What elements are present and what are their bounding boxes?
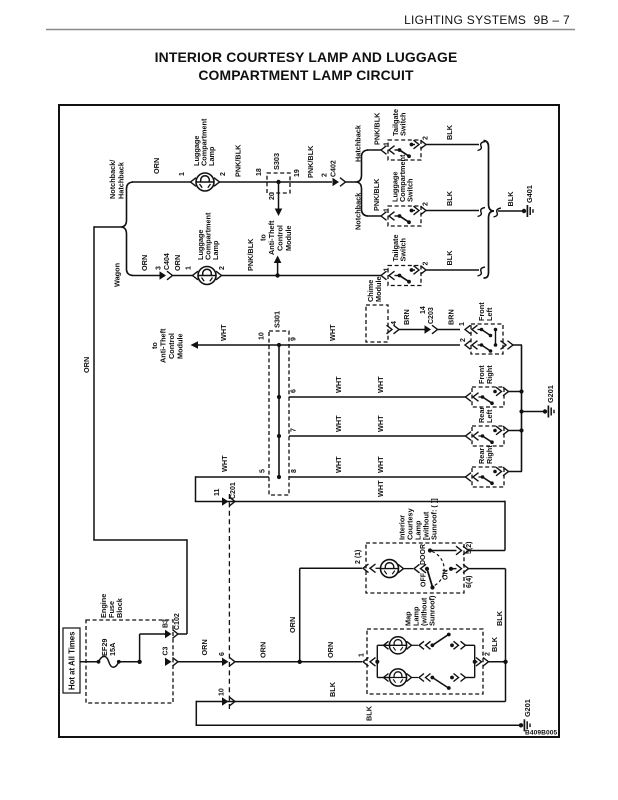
- svg-text:BRN: BRN: [447, 309, 456, 325]
- switch: Rear Left door switch: [472, 426, 504, 446]
- svg-text:Hatchback: Hatchback: [354, 124, 363, 162]
- svg-text:C3: C3: [163, 646, 170, 655]
- lamp module: Map Lamp box: [367, 629, 483, 694]
- svg-text:Right: Right: [485, 365, 494, 384]
- svg-text:Module: Module: [176, 333, 185, 359]
- svg-text:BLK: BLK: [506, 191, 515, 207]
- svg-text:18: 18: [256, 168, 263, 176]
- connector C201 harness dashed line: [228, 494, 230, 709]
- wire ORN C201 to map lamp pin 1: [235, 661, 362, 663]
- svg-text:Block: Block: [115, 597, 124, 618]
- wire DOOR contact to pin 5(2): [430, 550, 457, 552]
- wire tie to pin 2: [475, 661, 478, 663]
- wire BLK vertical x=505 down to bottom run: [505, 569, 507, 702]
- wire BRN C203 to front-left door switch pin 1: [438, 329, 461, 331]
- svg-text:G201: G201: [546, 385, 555, 403]
- wire map lamp pin2 to vertical: [489, 661, 506, 663]
- curl joint bus-to-G401 wire: [494, 208, 502, 217]
- wire PNK/BLK S303 to C402: [290, 181, 332, 183]
- fuse block: Engine Fuse Block box: [86, 620, 173, 703]
- svg-text:ORN: ORN: [140, 255, 149, 271]
- svg-text:11: 11: [214, 488, 221, 496]
- wire up-arrow to anti-theft control module (wagon row): [277, 261, 279, 276]
- svg-text:7: 7: [291, 428, 298, 432]
- wire WHT S301 pin6 to front-right door switch: [289, 396, 466, 398]
- switch: Tailgate Switch (wagon): [388, 266, 421, 286]
- svg-text:1: 1: [459, 322, 466, 326]
- fuse EF29 15A: [97, 660, 101, 664]
- svg-text:COMPARTMENT LAMP CIRCUIT: COMPARTMENT LAMP CIRCUIT: [198, 67, 414, 83]
- terminal map lamp pin 2: [476, 658, 482, 667]
- svg-text:Hot at All Times: Hot at All Times: [67, 631, 76, 690]
- svg-text:14: 14: [420, 306, 427, 314]
- S301 internal bus: [278, 345, 280, 477]
- svg-text:DOOR: DOOR: [420, 544, 427, 565]
- splice S301 box: [269, 331, 289, 495]
- svg-text:2: 2: [220, 172, 227, 176]
- svg-text:6(4): 6(4): [466, 576, 473, 588]
- svg-text:19: 19: [294, 169, 301, 177]
- label Hot at All Times box: [63, 628, 80, 693]
- terminal courtesy lamp pin 2(1): [363, 564, 369, 573]
- svg-text:WHT: WHT: [219, 324, 228, 341]
- svg-text:BRN: BRN: [402, 309, 411, 325]
- map lamp bulb+switch branch (top): [377, 644, 389, 646]
- svg-text:WHT: WHT: [376, 456, 385, 473]
- svg-text:1: 1: [186, 266, 193, 270]
- svg-text:15A: 15A: [108, 642, 117, 656]
- front left switch internals: [465, 325, 471, 334]
- switch: Tailgate Switch (hatchback): [388, 140, 421, 160]
- svg-text:Switch: Switch: [399, 112, 408, 136]
- svg-text:Lamp: Lamp: [211, 240, 220, 260]
- svg-text:ORN: ORN: [259, 642, 268, 658]
- wire front-right switch to bus: [509, 391, 523, 393]
- svg-text:WHT: WHT: [334, 456, 343, 473]
- svg-text:WHT: WHT: [376, 415, 385, 432]
- svg-text:G201: G201: [523, 699, 532, 717]
- curl joint notchback-to-bus: [478, 208, 486, 217]
- svg-text:C404: C404: [164, 253, 171, 270]
- svg-text:S303: S303: [272, 153, 281, 170]
- wire 5(2) to vertical x=505: [469, 550, 506, 552]
- svg-text:2: 2: [460, 338, 467, 342]
- wire ORN wagon row to C404: [132, 275, 160, 277]
- diagram border frame: [59, 105, 559, 737]
- wire WHT S301 pin7 to rear-left door switch: [289, 435, 466, 437]
- map lamp branch verticals: [376, 645, 378, 677]
- svg-text:2: 2: [423, 202, 430, 206]
- curl joint wagon-to-bus: [478, 267, 486, 276]
- wire ORN feed into left brace: [94, 226, 121, 228]
- switch: Front Right door switch: [472, 387, 504, 407]
- svg-text:BLK: BLK: [490, 636, 499, 652]
- lamp: interior courtesy bulb: [376, 567, 381, 569]
- wire map lamp input to split: [376, 661, 378, 663]
- connector C102 pin B3: [165, 630, 172, 638]
- svg-text:5: 5: [260, 469, 267, 473]
- svg-text:PNK/BLK: PNK/BLK: [234, 144, 243, 177]
- svg-text:BLK: BLK: [445, 250, 454, 266]
- svg-text:Switch: Switch: [406, 178, 415, 202]
- ground G201 (middle): [543, 409, 547, 413]
- svg-text:BLK: BLK: [328, 681, 337, 697]
- lamp: Luggage Compartment Lamp (notchback/hatchback): [196, 173, 214, 191]
- svg-text:10: 10: [259, 332, 266, 340]
- wire ON contact to pin 6(4): [451, 568, 457, 570]
- wire junction up to B3: [139, 634, 141, 662]
- terminal courtesy pin 5(2): [456, 546, 462, 555]
- svg-text:Module: Module: [284, 225, 293, 251]
- wire BLK bottom run y=725 to G201: [196, 724, 521, 726]
- svg-text:OFF: OFF: [421, 572, 428, 587]
- wire feed horizontal y=540: [93, 539, 187, 541]
- switch: Luggage Compartment Switch: [388, 206, 421, 226]
- svg-text:WHT: WHT: [328, 324, 337, 341]
- wire C102 to vertical feed: [178, 633, 187, 635]
- wire WHT S301 pin8 to rear-right door switch: [289, 476, 466, 478]
- courtesy switch blade to OFF: [427, 569, 432, 587]
- svg-text:WHT: WHT: [334, 415, 343, 432]
- wire BLK hatchback switch to ground bus: [426, 144, 479, 146]
- wire BLK luggage switch to ground bus: [426, 210, 479, 212]
- terminal courtesy pin 6(4): [456, 564, 462, 573]
- courtesy switch travel arc (dashed): [432, 552, 444, 586]
- wire rear-right switch to bus: [509, 471, 523, 473]
- svg-text:Hatchback: Hatchback: [117, 161, 126, 199]
- svg-text:ORN: ORN: [82, 357, 91, 373]
- svg-text:9: 9: [291, 337, 298, 341]
- wire PNK/BLK hatchback row: [367, 149, 381, 151]
- svg-text:2: 2: [423, 262, 430, 266]
- svg-text:B3: B3: [163, 619, 170, 628]
- svg-text:2: 2: [219, 266, 226, 270]
- wire PNK/BLK wagon lamp to tailgate switch: [222, 275, 382, 277]
- svg-text:Module: Module: [374, 276, 383, 302]
- wire pin5 corner down: [195, 476, 197, 501]
- svg-text:C201: C201: [230, 482, 237, 499]
- header rule: [46, 29, 575, 31]
- svg-text:WHT: WHT: [376, 480, 385, 497]
- svg-text:INTERIOR COURTESY LAMP AND LUG: INTERIOR COURTESY LAMP AND LUGGAGE: [155, 49, 458, 65]
- courtesy switch ON contact: [449, 567, 453, 571]
- svg-text:ORN: ORN: [288, 617, 297, 633]
- wire ORN C3 to C201 pin 6: [178, 661, 225, 663]
- svg-text:C402: C402: [331, 160, 338, 177]
- wire WHT run y=501 to courtesy lamp pin 5(2): [195, 501, 505, 503]
- option brace (left, wagon/notchback split): [121, 182, 134, 276]
- connector C203: [425, 325, 432, 333]
- wire vertical x=505 down to courtesy 5(2): [504, 501, 506, 551]
- wire hot feed into fuse: [80, 661, 98, 663]
- curl joint hatchback-to-bus: [478, 142, 486, 151]
- svg-text:Wagon: Wagon: [113, 263, 122, 287]
- svg-text:8: 8: [291, 469, 298, 473]
- svg-text:PNK/BLK: PNK/BLK: [373, 112, 382, 145]
- svg-text:2 (1): 2 (1): [355, 550, 362, 564]
- courtesy switch DOOR contact: [428, 548, 432, 552]
- svg-text:BLK: BLK: [495, 610, 504, 626]
- svg-text:6: 6: [291, 389, 298, 393]
- wire WHT S301 pin9 to front-left door switch pin 2: [289, 344, 460, 346]
- svg-text:4: 4: [391, 321, 398, 325]
- lamp module: Interior Courtesy Lamp box: [366, 543, 464, 593]
- svg-text:C203: C203: [428, 307, 435, 324]
- svg-text:C102: C102: [174, 613, 181, 630]
- module: Chime Module box: [366, 305, 388, 342]
- junction dot map lamp output: [473, 660, 477, 664]
- svg-text:ORN: ORN: [200, 639, 209, 655]
- svg-text:ORN: ORN: [326, 642, 335, 658]
- wire S303 pin 20 down with arrow to anti-theft control module: [278, 182, 280, 210]
- wire BRN chime to C203: [399, 329, 425, 331]
- svg-text:3: 3: [156, 266, 163, 270]
- junction dots door ground bus: [519, 389, 523, 393]
- wire BLK wagon switch to ground bus: [426, 269, 479, 271]
- svg-text:B409B005: B409B005: [525, 730, 558, 737]
- svg-text:5(2): 5(2): [466, 542, 473, 554]
- svg-text:2: 2: [322, 173, 329, 177]
- junction dot in S303: [276, 180, 280, 184]
- option brace (hatchback/notchback split): [356, 150, 369, 216]
- wire through S301 row A: [269, 344, 289, 346]
- svg-text:PNK/BLK: PNK/BLK: [306, 145, 315, 178]
- connector C201 pin 11: [222, 497, 229, 505]
- svg-text:WHT: WHT: [220, 455, 229, 472]
- svg-text:ORN: ORN: [152, 158, 161, 174]
- svg-text:PNK/BLK: PNK/BLK: [246, 238, 255, 271]
- junction dot map lamp split: [375, 660, 379, 664]
- courtesy switch common contact: [425, 567, 429, 571]
- svg-text:G401: G401: [525, 185, 534, 203]
- map lamp bulb+switch branch (bottom): [377, 677, 389, 679]
- splice S303 box: [267, 173, 290, 193]
- wire through S303: [267, 181, 290, 183]
- terminal switch common side: [414, 564, 420, 573]
- wire lamp to switch common: [404, 568, 414, 570]
- svg-text:ORN: ORN: [173, 255, 182, 271]
- wire WHT S301 pin10 with left arrow to anti-theft module: [196, 344, 269, 346]
- svg-text:1: 1: [384, 208, 391, 212]
- wire ORN vertical feed (left side): [93, 226, 95, 540]
- svg-text:WHT: WHT: [376, 376, 385, 393]
- svg-text:WHT: WHT: [334, 376, 343, 393]
- wire C402 to right option brace: [346, 181, 357, 183]
- svg-text:1: 1: [359, 653, 366, 657]
- terminal chime module pin 4: [387, 325, 393, 334]
- wire corner down x=196: [195, 701, 197, 726]
- switch: Rear Right door switch: [472, 467, 504, 487]
- wire PNK/BLK lamp to S303: [220, 181, 268, 183]
- junction dot at vertical: [503, 660, 507, 664]
- svg-text:Notchback: Notchback: [354, 192, 363, 230]
- svg-text:Sunroof): Sunroof): [428, 595, 437, 626]
- svg-text:PNK/BLK: PNK/BLK: [372, 178, 381, 211]
- wire BLK bottom run y=701 (to C201 pin 10): [196, 701, 505, 703]
- svg-text:1: 1: [179, 172, 186, 176]
- wire BLK bus to G401: [498, 210, 523, 212]
- wire front-left switch to door ground bus: [513, 344, 522, 346]
- ground bus brace (to G401): [484, 141, 495, 279]
- junction dot fuse output: [137, 660, 141, 664]
- svg-text:1: 1: [384, 142, 391, 146]
- wire rear-left switch to bus: [509, 430, 523, 432]
- svg-text:Left: Left: [485, 307, 494, 321]
- connector C201 pin 10: [222, 697, 229, 705]
- wire WHT S301 pin5 left leg: [196, 476, 270, 478]
- terminal map lamp pin 1: [363, 658, 369, 667]
- switch: Front Left door switch box: [471, 324, 503, 354]
- wire ORN top line to luggage lamp: [132, 181, 191, 183]
- svg-text:BLK: BLK: [445, 124, 454, 140]
- wire terminal to common dot: [426, 568, 428, 570]
- svg-text:LIGHTING SYSTEMS 9B – 7: LIGHTING SYSTEMS 9B – 7: [404, 13, 570, 27]
- svg-text:1: 1: [384, 268, 391, 272]
- svg-text:Switch: Switch: [399, 238, 408, 262]
- connector C201 pin 6: [222, 658, 229, 666]
- svg-text:Left: Left: [485, 409, 494, 423]
- wire ORN branch up to courtesy lamp: [299, 568, 301, 662]
- svg-text:2: 2: [423, 136, 430, 140]
- svg-text:Right: Right: [485, 445, 494, 464]
- wire bus to G201 (middle): [522, 411, 545, 413]
- wire PNK/BLK notchback row: [367, 215, 381, 217]
- connector fuse block pin C3: [165, 658, 172, 666]
- svg-text:Sunroof: ( )]: Sunroof: ( )]: [430, 498, 439, 540]
- ground G201 (bottom): [519, 723, 523, 727]
- map lamp output tie: [474, 645, 476, 677]
- connector C404: [160, 271, 167, 279]
- wire 6(4) to vertical x=505: [469, 568, 506, 570]
- ground G401: [522, 209, 526, 213]
- svg-text:6: 6: [219, 652, 226, 656]
- svg-text:BLK: BLK: [445, 190, 454, 206]
- junction dot courtesy branch: [298, 660, 302, 664]
- wire fuse to junction: [119, 661, 140, 663]
- lamp: Luggage Compartment Lamp (wagon): [198, 267, 216, 285]
- svg-text:BLK: BLK: [365, 705, 374, 721]
- connector C402: [333, 178, 340, 186]
- svg-text:20: 20: [269, 192, 276, 200]
- svg-text:Lamp: Lamp: [207, 146, 216, 166]
- wire ORN C404 to wagon luggage lamp: [173, 275, 193, 277]
- junction dot wagon row anti-theft tap: [275, 273, 279, 277]
- wire feed vertical x=187 to fuse output: [186, 539, 188, 634]
- door switch ground bus (vertical): [521, 345, 523, 472]
- svg-text:S301: S301: [273, 311, 282, 328]
- junction dots S301: [277, 343, 281, 347]
- svg-text:10: 10: [219, 688, 226, 696]
